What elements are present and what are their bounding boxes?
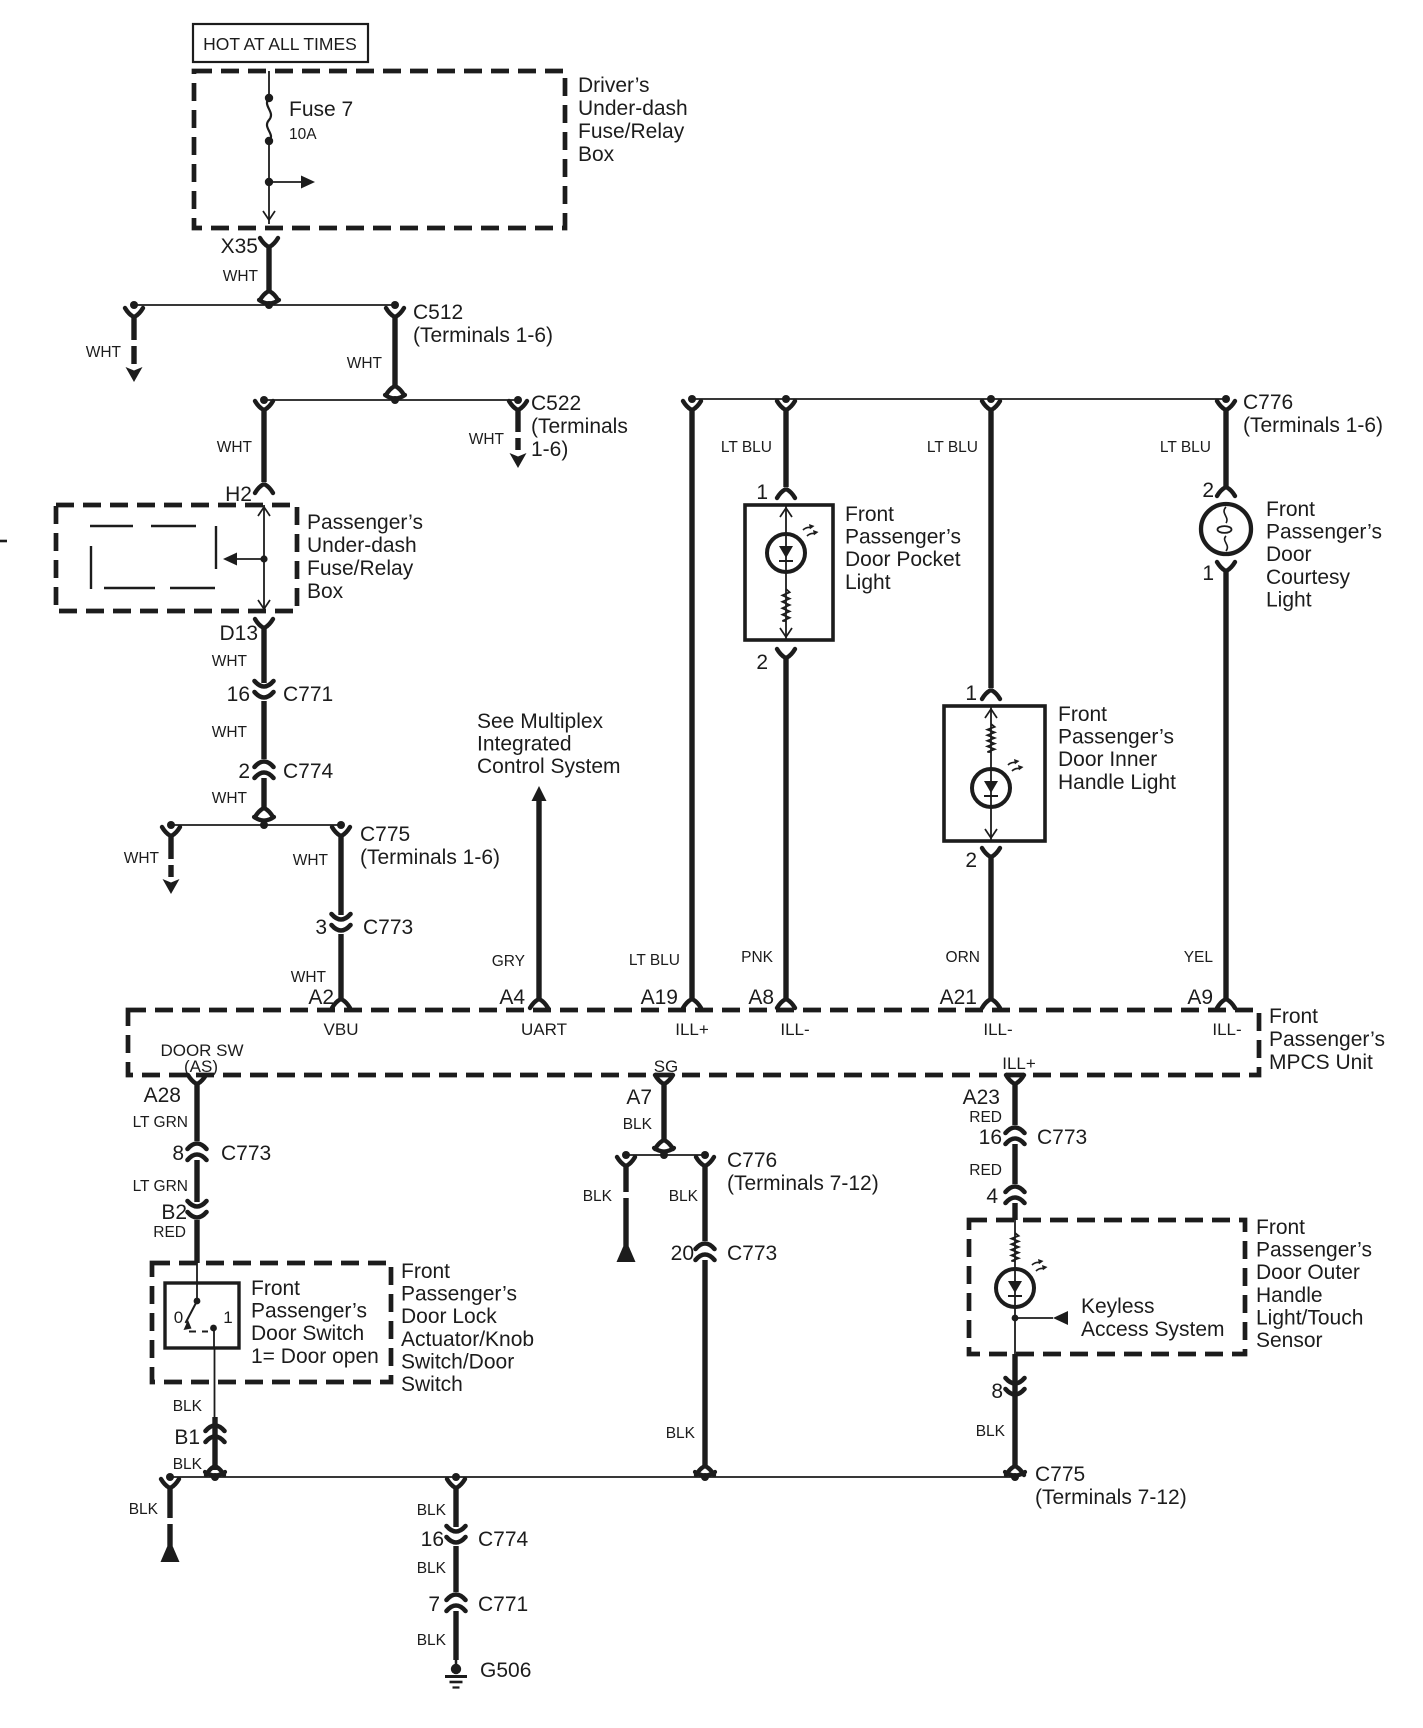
- svg-text:20: 20: [671, 1242, 694, 1265]
- svg-text:(Terminals 7-12): (Terminals 7-12): [1035, 1486, 1187, 1509]
- label X35: [221, 235, 258, 258]
- outer handle internal circuit: [996, 1220, 1048, 1354]
- svg-text:Actuator/Knob: Actuator/Knob: [401, 1328, 534, 1351]
- svg-text:BLK: BLK: [583, 1188, 613, 1205]
- label keyless access system: [1081, 1295, 1225, 1341]
- wire LT BLU to inner handle light pin 1: [927, 401, 1000, 705]
- svg-text:Front: Front: [401, 1260, 450, 1283]
- connector C773 pin 3: [315, 914, 413, 939]
- label C776 (Terminals 1-6): [1243, 391, 1383, 437]
- svg-text:2: 2: [1202, 479, 1214, 502]
- svg-text:Keyless: Keyless: [1081, 1295, 1155, 1318]
- wire PNK pocket light pin 2 to A8: [741, 649, 795, 1008]
- svg-text:HOT AT ALL TIMES: HOT AT ALL TIMES: [203, 34, 357, 54]
- arrowhead into X35: [263, 211, 275, 220]
- svg-text:A23: A23: [963, 1086, 1000, 1109]
- svg-text:A4: A4: [499, 986, 525, 1009]
- connector C771 pin 16: [227, 681, 334, 706]
- svg-text:Door Lock: Door Lock: [401, 1305, 497, 1328]
- MPCS pin name VBU: [324, 1020, 359, 1039]
- wire LT BLU to A19: [629, 401, 701, 1008]
- svg-text:LT GRN: LT GRN: [133, 1178, 188, 1195]
- MPCS pin name ILL+: [1002, 1054, 1036, 1073]
- svg-text:1= Door open: 1= Door open: [251, 1345, 379, 1368]
- wire RED to door switch: [194, 1220, 199, 1263]
- svg-text:4: 4: [986, 1185, 998, 1208]
- label inner handle light: [1058, 703, 1176, 794]
- svg-text:C771: C771: [478, 1593, 528, 1616]
- wire ORN inner handle pin 2 to A21: [946, 848, 1000, 1008]
- svg-text:Passenger’s: Passenger’s: [307, 511, 423, 534]
- svg-text:Light: Light: [1266, 588, 1312, 611]
- svg-text:Fuse 7: Fuse 7: [289, 98, 353, 121]
- svg-text:A2: A2: [308, 986, 334, 1009]
- svg-text:16: 16: [421, 1528, 444, 1551]
- svg-text:Passenger’s: Passenger’s: [845, 526, 961, 549]
- svg-text:C773: C773: [1037, 1126, 1087, 1149]
- MPCS pin name ILL-: [983, 1020, 1012, 1039]
- fuse F7 (Fuse 7 10A): [265, 94, 353, 145]
- wire BLK: [417, 1611, 456, 1660]
- svg-text:WHT: WHT: [124, 850, 160, 867]
- label courtesy light: [1266, 498, 1382, 611]
- wire bus at C522 level: [260, 396, 522, 404]
- wire LT GRN from A28: [133, 1075, 206, 1141]
- svg-text:1-6): 1-6): [531, 438, 568, 461]
- svg-text:Switch: Switch: [401, 1373, 463, 1396]
- svg-text:1: 1: [965, 682, 977, 705]
- svg-text:BLK: BLK: [623, 1116, 653, 1133]
- wire LT GRN: [133, 1160, 197, 1202]
- svg-text:Passenger’s: Passenger’s: [1269, 1028, 1385, 1051]
- svg-text:Front: Front: [251, 1277, 300, 1300]
- unit front passenger's MPCS unit: [128, 1010, 1259, 1075]
- wire BLK: [417, 1546, 456, 1592]
- connector B2: [153, 1201, 206, 1241]
- svg-text:16: 16: [227, 683, 250, 706]
- branch arrow WHT below C775 bus: [124, 827, 180, 894]
- svg-text:(Terminals: (Terminals: [531, 415, 628, 438]
- svg-text:BLK: BLK: [669, 1188, 699, 1205]
- svg-text:Passenger’s: Passenger’s: [401, 1283, 517, 1306]
- switch front passenger's door switch: [165, 1263, 239, 1348]
- label A28: [144, 1084, 181, 1107]
- svg-text:PNK: PNK: [741, 949, 774, 966]
- branch arrow left in passenger's box: [223, 553, 268, 566]
- svg-text:0: 0: [174, 1308, 183, 1327]
- svg-text:MPCS Unit: MPCS Unit: [1269, 1051, 1373, 1074]
- connector X35 wire WHT: [223, 238, 279, 304]
- svg-text:2: 2: [965, 849, 977, 872]
- svg-text:WHT: WHT: [293, 852, 329, 869]
- svg-text:Front: Front: [845, 503, 894, 526]
- wire through passenger's box: [258, 505, 270, 611]
- svg-text:SG: SG: [654, 1057, 679, 1076]
- svg-text:BLK: BLK: [129, 1501, 159, 1518]
- svg-text:7: 7: [428, 1593, 440, 1616]
- label A9: [1187, 986, 1213, 1009]
- svg-text:2: 2: [238, 760, 250, 783]
- svg-text:ILL-: ILL-: [780, 1020, 809, 1039]
- label outer handle sensor: [1256, 1216, 1372, 1352]
- svg-text:WHT: WHT: [469, 431, 505, 448]
- svg-text:See Multiplex: See Multiplex: [477, 710, 604, 733]
- svg-text:8: 8: [991, 1380, 1003, 1403]
- svg-text:Front: Front: [1058, 703, 1107, 726]
- svg-text:WHT: WHT: [291, 969, 327, 986]
- svg-text:Door: Door: [1266, 543, 1312, 566]
- internal circuit sketch in passenger's box: [90, 526, 216, 589]
- wire WHT: [212, 701, 264, 759]
- connector C512 drop wire WHT: [347, 308, 405, 399]
- svg-text:Fuse/Relay: Fuse/Relay: [578, 120, 685, 143]
- svg-text:Control System: Control System: [477, 755, 621, 778]
- lamp front passenger's door inner handle light: [944, 706, 1045, 841]
- label A4: [499, 986, 525, 1009]
- wire bus at C775 level: [167, 821, 345, 829]
- wire BLK long: [666, 1260, 705, 1466]
- svg-text:LT BLU: LT BLU: [927, 439, 978, 456]
- wire BLK from C776: [669, 1157, 714, 1241]
- svg-text:C776: C776: [1243, 391, 1293, 414]
- svg-text:WHT: WHT: [217, 439, 253, 456]
- svg-text:1: 1: [756, 481, 768, 504]
- svg-text:Light/Touch: Light/Touch: [1256, 1306, 1363, 1329]
- svg-text:WHT: WHT: [347, 355, 383, 372]
- svg-text:BLK: BLK: [666, 1425, 696, 1442]
- svg-text:WHT: WHT: [212, 653, 248, 670]
- svg-text:G506: G506: [480, 1659, 531, 1682]
- svg-text:BLK: BLK: [173, 1456, 203, 1473]
- svg-text:Box: Box: [307, 580, 344, 603]
- svg-text:Front: Front: [1266, 498, 1315, 521]
- label A7: [626, 1086, 652, 1109]
- connector pin 4: [986, 1185, 1024, 1208]
- svg-text:BLK: BLK: [417, 1632, 447, 1649]
- label A8: [748, 986, 774, 1009]
- svg-text:A21: A21: [940, 986, 977, 1009]
- ground bus wire: [166, 1473, 1019, 1481]
- label door switch: [251, 1277, 379, 1368]
- svg-text:Access System: Access System: [1081, 1318, 1225, 1341]
- svg-text:Passenger’s: Passenger’s: [1266, 521, 1382, 544]
- svg-text:(Terminals 1-6): (Terminals 1-6): [1243, 414, 1383, 437]
- svg-text:LT BLU: LT BLU: [1160, 439, 1211, 456]
- passenger's under-dash fuse/relay box: [56, 505, 297, 611]
- svg-text:WHT: WHT: [86, 344, 122, 361]
- wire: [268, 71, 270, 98]
- connector C774 pin 2: [238, 760, 333, 783]
- node/wire bus below X35: [130, 301, 399, 309]
- svg-text:Under-dash: Under-dash: [578, 97, 688, 120]
- svg-text:8: 8: [172, 1142, 184, 1165]
- wire BLK to G506: [417, 1479, 465, 1527]
- wire WHT to A2: [291, 934, 350, 1008]
- label D13: [219, 622, 258, 645]
- label passenger's box: [307, 511, 423, 603]
- connector C773 pin 8: [172, 1142, 271, 1165]
- svg-text:A19: A19: [641, 986, 678, 1009]
- wire YEL courtesy light pin 1 to A9: [1184, 562, 1235, 1008]
- svg-text:Passenger’s: Passenger’s: [251, 1300, 367, 1323]
- connector B1: [173, 1426, 225, 1474]
- svg-text:Sensor: Sensor: [1256, 1329, 1323, 1352]
- svg-text:16: 16: [979, 1126, 1002, 1149]
- svg-text:Light: Light: [845, 571, 891, 594]
- label C775 (Terminals 7-12): [1035, 1463, 1187, 1509]
- svg-text:RED: RED: [969, 1162, 1002, 1179]
- wire WHT: [212, 778, 274, 821]
- branch arrow right in driver's box: [265, 176, 315, 189]
- svg-text:C522: C522: [531, 392, 581, 415]
- junction B1 to ground bus: [205, 1467, 225, 1476]
- svg-text:BLK: BLK: [976, 1423, 1006, 1440]
- wire from door switch: [213, 1328, 216, 1417]
- label pocket light: [845, 503, 961, 594]
- svg-text:1: 1: [223, 1308, 232, 1327]
- svg-text:C774: C774: [478, 1528, 529, 1551]
- label C776 (Terminals 7-12): [727, 1149, 879, 1195]
- svg-text:C773: C773: [221, 1142, 271, 1165]
- wire BLK below outer handle: [1012, 1354, 1017, 1466]
- svg-text:WHT: WHT: [212, 724, 248, 741]
- svg-text:1: 1: [1202, 562, 1214, 585]
- connector C522 arrow WHT: [469, 401, 527, 468]
- label driver's box: [578, 74, 688, 166]
- label box HOT AT ALL TIMES: [193, 24, 368, 62]
- svg-text:WHT: WHT: [212, 790, 248, 807]
- svg-text:B1: B1: [174, 1426, 200, 1449]
- svg-text:UART: UART: [521, 1020, 567, 1039]
- svg-text:A28: A28: [144, 1084, 181, 1107]
- svg-text:RED: RED: [969, 1109, 1002, 1126]
- svg-text:RED: RED: [153, 1224, 186, 1241]
- svg-text:Front: Front: [1269, 1005, 1318, 1028]
- svg-text:3: 3: [315, 916, 327, 939]
- svg-text:WHT: WHT: [223, 268, 259, 285]
- label C775 (Terminals 1-6): [360, 823, 500, 869]
- svg-text:C775: C775: [1035, 1463, 1085, 1486]
- lamp front passenger's door courtesy light: [1201, 504, 1251, 554]
- svg-text:Courtesy: Courtesy: [1266, 566, 1351, 589]
- svg-text:A9: A9: [1187, 986, 1213, 1009]
- svg-text:ILL+: ILL+: [1002, 1054, 1036, 1073]
- svg-text:A7: A7: [626, 1086, 652, 1109]
- connector C771 pin 7: [428, 1593, 528, 1616]
- MPCS pin name ILL-: [780, 1020, 809, 1039]
- svg-text:(Terminals 7-12): (Terminals 7-12): [727, 1172, 879, 1195]
- svg-text:Passenger’s: Passenger’s: [1256, 1239, 1372, 1262]
- svg-text:Switch/Door: Switch/Door: [401, 1350, 514, 1373]
- driver's under-dash fuse/relay box: [194, 71, 565, 228]
- wire WHT from D13: [212, 619, 273, 683]
- label C522: [531, 392, 628, 461]
- svg-text:ILL-: ILL-: [983, 1020, 1012, 1039]
- branch wire BLK to ground (tent): [583, 1157, 636, 1262]
- svg-text:LT BLU: LT BLU: [629, 952, 680, 969]
- svg-text:Door Switch: Door Switch: [251, 1322, 364, 1345]
- wire bus C776 level: [688, 395, 1230, 403]
- note See Multiplex Integrated Control System: [477, 710, 621, 778]
- label door lock actuator: [401, 1260, 534, 1396]
- unit front passenger's door lock actuator (dashed box): [152, 1263, 391, 1382]
- svg-text:X35: X35: [221, 235, 258, 258]
- wire BLK from A7: [623, 1075, 674, 1152]
- wire: [268, 141, 270, 224]
- svg-text:ORN: ORN: [946, 949, 980, 966]
- svg-text:Door Outer: Door Outer: [1256, 1261, 1360, 1284]
- connector pin 8: [976, 1378, 1025, 1440]
- svg-text:VBU: VBU: [324, 1020, 359, 1039]
- stray mark at left margin: [0, 540, 7, 543]
- svg-text:C776: C776: [727, 1149, 777, 1172]
- connector C773 pin 16: [979, 1126, 1088, 1149]
- svg-text:C773: C773: [363, 916, 413, 939]
- svg-text:H2: H2: [225, 483, 252, 506]
- svg-text:D13: D13: [219, 622, 258, 645]
- svg-text:Handle Light: Handle Light: [1058, 771, 1176, 794]
- svg-text:Box: Box: [578, 143, 615, 166]
- label A19: [641, 986, 678, 1009]
- svg-text:Passenger’s: Passenger’s: [1058, 726, 1174, 749]
- branch wire BLK to ground left (tent): [129, 1479, 180, 1562]
- ground G506: [445, 1659, 531, 1688]
- wire LT BLU to pocket light pin 1: [721, 401, 795, 504]
- svg-text:C771: C771: [283, 683, 333, 706]
- svg-text:C774: C774: [283, 760, 334, 783]
- MPCS pin name ILL+: [675, 1020, 709, 1039]
- svg-text:BLK: BLK: [173, 1398, 203, 1415]
- svg-text:C512: C512: [413, 301, 463, 324]
- wire BLK: [173, 1398, 215, 1470]
- wire WHT to H2: [217, 401, 273, 506]
- MPCS pin name ILL-: [1212, 1020, 1241, 1039]
- wire bus at C776 7-12 level: [622, 1151, 709, 1159]
- svg-text:(Terminals 1-6): (Terminals 1-6): [413, 324, 553, 347]
- wire to outer handle sensor: [1012, 1203, 1017, 1220]
- svg-text:C775: C775: [360, 823, 410, 846]
- wire RED from A23: [969, 1075, 1024, 1126]
- svg-text:ILL+: ILL+: [675, 1020, 709, 1039]
- svg-text:10A: 10A: [289, 126, 317, 143]
- connector C774 pin 16: [421, 1526, 529, 1551]
- svg-text:B2: B2: [161, 1201, 187, 1224]
- label A2: [308, 986, 334, 1009]
- label A23: [963, 1086, 1000, 1109]
- svg-text:2: 2: [756, 651, 768, 674]
- junction outer handle wire to ground bus: [1005, 1467, 1025, 1476]
- svg-text:Door Inner: Door Inner: [1058, 748, 1157, 771]
- wire LT BLU to courtesy light pin 2: [1160, 401, 1235, 502]
- svg-text:LT GRN: LT GRN: [133, 1114, 188, 1131]
- label MPCS unit: [1269, 1005, 1385, 1074]
- svg-text:BLK: BLK: [417, 1502, 447, 1519]
- svg-text:Integrated: Integrated: [477, 733, 572, 756]
- branch wire WHT to other circuits (left arrow): [86, 308, 143, 382]
- svg-text:GRY: GRY: [492, 953, 525, 970]
- MPCS pin name DOOR SW (AS): [160, 1041, 243, 1076]
- svg-text:ILL-: ILL-: [1212, 1020, 1241, 1039]
- MPCS pin name SG: [654, 1057, 679, 1076]
- svg-text:Driver’s: Driver’s: [578, 74, 650, 97]
- MPCS pin name UART: [521, 1020, 567, 1039]
- lamp front passenger's door pocket light: [745, 505, 833, 640]
- label C512: [413, 301, 553, 347]
- svg-text:Front: Front: [1256, 1216, 1305, 1239]
- wire GRY UART to multiplex: [492, 786, 548, 1008]
- svg-text:Handle: Handle: [1256, 1284, 1323, 1307]
- wire WHT from C775: [293, 827, 350, 915]
- svg-text:YEL: YEL: [1184, 949, 1214, 966]
- branch to keyless access system: [1012, 1311, 1068, 1325]
- wire RED: [969, 1144, 1015, 1184]
- svg-text:C773: C773: [727, 1242, 777, 1265]
- label A21: [940, 986, 977, 1009]
- svg-text:Fuse/Relay: Fuse/Relay: [307, 557, 414, 580]
- connector C773 pin 20: [671, 1242, 778, 1265]
- svg-text:(Terminals 1-6): (Terminals 1-6): [360, 846, 500, 869]
- svg-text:Under-dash: Under-dash: [307, 534, 417, 557]
- svg-text:Door Pocket: Door Pocket: [845, 548, 961, 571]
- svg-text:BLK: BLK: [417, 1560, 447, 1577]
- unit front passenger's door outer handle light/touch sensor (dashed box): [969, 1220, 1245, 1354]
- svg-text:LT BLU: LT BLU: [721, 439, 772, 456]
- junction C776 wire to ground bus: [695, 1467, 715, 1476]
- svg-text:A8: A8: [748, 986, 774, 1009]
